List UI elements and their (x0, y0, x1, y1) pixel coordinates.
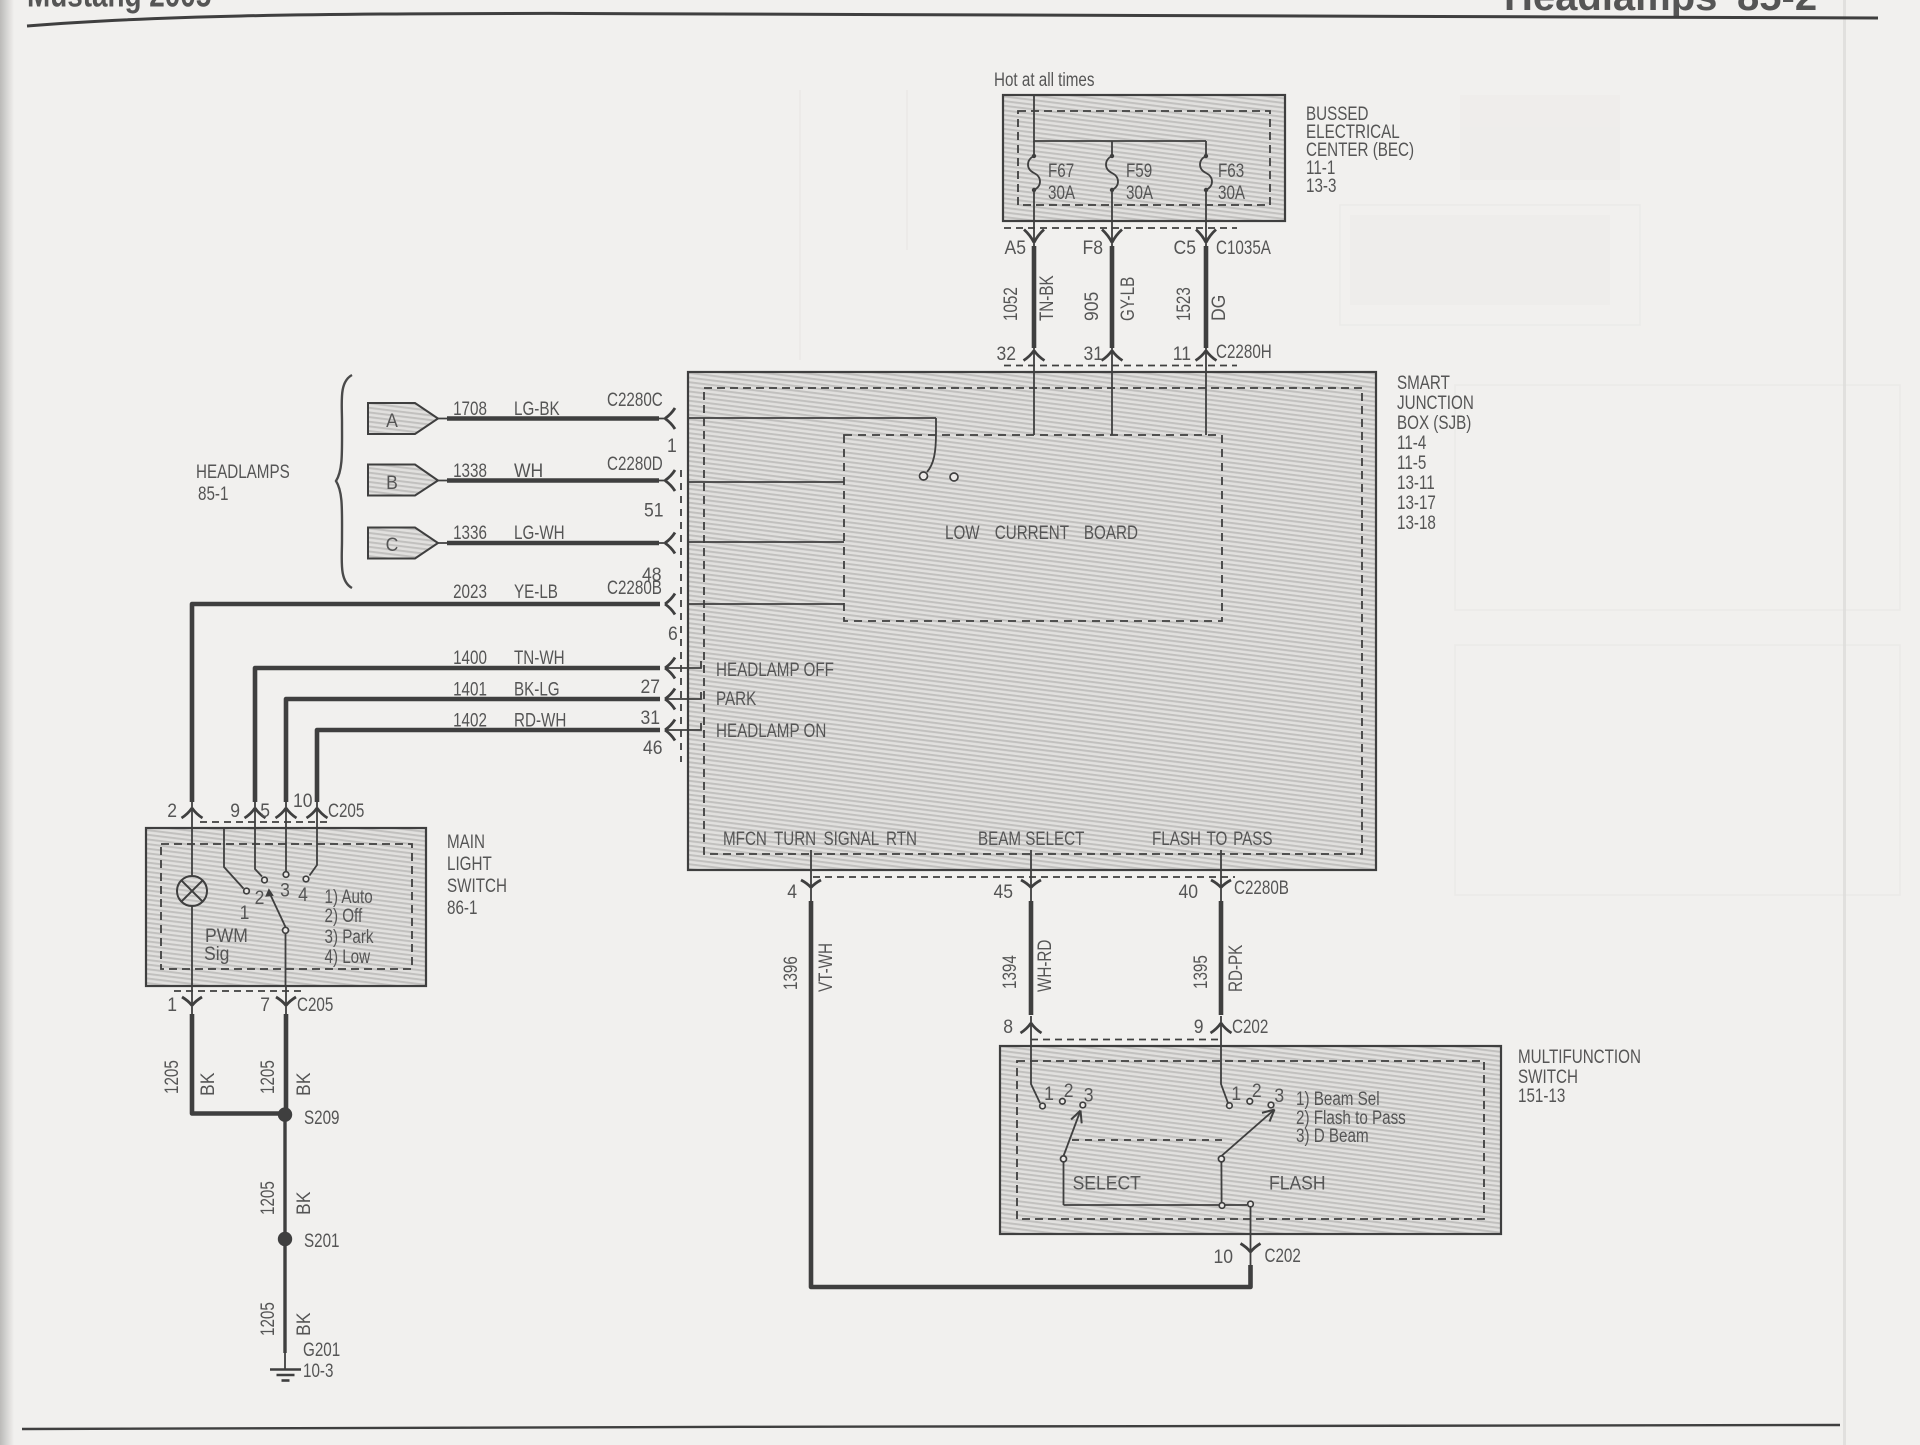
svg-text:31: 31 (640, 706, 660, 728)
svg-text:10: 10 (293, 789, 313, 811)
svg-text:46: 46 (643, 736, 663, 758)
svg-text:C2280H: C2280H (1216, 340, 1272, 362)
svg-text:1394: 1394 (998, 955, 1020, 989)
svg-text:9: 9 (1194, 1015, 1204, 1037)
svg-text:BK-LG: BK-LG (514, 678, 560, 700)
svg-text:31: 31 (1083, 342, 1103, 364)
svg-text:1338: 1338 (453, 459, 487, 481)
svg-text:LOW CURRENT BOARD: LOW CURRENT BOARD (945, 521, 1138, 543)
svg-text:C5: C5 (1174, 236, 1196, 258)
svg-text:2: 2 (1252, 1079, 1262, 1101)
svg-text:JUNCTION: JUNCTION (1397, 391, 1474, 413)
svg-text:B: B (386, 471, 398, 493)
svg-text:F67: F67 (1048, 159, 1074, 181)
svg-text:F63: F63 (1218, 159, 1244, 181)
svg-text:SELECT: SELECT (1073, 1172, 1141, 1194)
svg-text:4: 4 (298, 883, 308, 905)
svg-text:32: 32 (996, 342, 1016, 364)
svg-text:MAIN: MAIN (447, 830, 485, 852)
svg-text:BOX (SJB): BOX (SJB) (1397, 411, 1471, 433)
svg-text:3) D Beam: 3) D Beam (1296, 1124, 1369, 1146)
svg-text:PARK: PARK (716, 687, 757, 709)
svg-text:1395: 1395 (1189, 955, 1211, 989)
svg-text:FLASH TO PASS: FLASH TO PASS (1152, 827, 1273, 849)
svg-text:C2280B: C2280B (607, 576, 662, 598)
svg-text:RD-PK: RD-PK (1224, 944, 1246, 992)
svg-text:1402: 1402 (453, 709, 487, 731)
svg-text:WH: WH (514, 459, 543, 481)
svg-text:VT-WH: VT-WH (814, 943, 836, 992)
svg-text:C205: C205 (328, 799, 364, 821)
svg-text:1205: 1205 (256, 1302, 278, 1336)
svg-text:HEADLAMP OFF: HEADLAMP OFF (716, 658, 834, 680)
svg-text:2: 2 (255, 886, 265, 908)
svg-text:Sig: Sig (204, 942, 229, 964)
svg-text:Mustang 2005: Mustang 2005 (27, 0, 211, 14)
svg-text:2: 2 (1064, 1079, 1074, 1101)
svg-text:1396: 1396 (779, 956, 801, 990)
svg-text:C1035A: C1035A (1216, 236, 1271, 258)
svg-text:WH-RD: WH-RD (1033, 940, 1055, 992)
svg-text:SWITCH: SWITCH (447, 874, 507, 896)
svg-text:4: 4 (787, 880, 797, 902)
svg-text:1523: 1523 (1172, 287, 1194, 321)
svg-text:1052: 1052 (999, 287, 1021, 321)
svg-text:3: 3 (1084, 1084, 1094, 1106)
svg-text:C2280D: C2280D (607, 452, 663, 474)
svg-text:1401: 1401 (453, 678, 487, 700)
svg-text:BK: BK (196, 1072, 218, 1096)
svg-text:1: 1 (667, 434, 677, 456)
svg-text:1: 1 (240, 901, 250, 923)
svg-text:11-5: 11-5 (1397, 451, 1426, 473)
svg-text:HEADLAMP ON: HEADLAMP ON (716, 719, 826, 741)
svg-text:10-3: 10-3 (303, 1359, 333, 1381)
svg-text:FLASH: FLASH (1269, 1172, 1326, 1194)
svg-text:BEAM SELECT: BEAM SELECT (978, 827, 1085, 849)
svg-text:Hot at all times: Hot at all times (994, 68, 1095, 90)
svg-text:51: 51 (644, 499, 664, 521)
svg-text:MULTIFUNCTION: MULTIFUNCTION (1518, 1045, 1641, 1067)
svg-text:3: 3 (1274, 1084, 1284, 1106)
svg-text:MFCN TURN SIGNAL RTN: MFCN TURN SIGNAL RTN (723, 827, 917, 849)
svg-text:LIGHT: LIGHT (447, 852, 492, 874)
svg-text:F8: F8 (1083, 236, 1103, 258)
svg-text:1: 1 (1231, 1082, 1241, 1104)
svg-text:905: 905 (1080, 292, 1102, 321)
svg-text:RD-WH: RD-WH (514, 709, 566, 731)
svg-text:2) Off: 2) Off (325, 904, 363, 926)
svg-text:F59: F59 (1126, 159, 1152, 181)
svg-text:151-13: 151-13 (1518, 1084, 1565, 1106)
svg-text:1336: 1336 (453, 521, 487, 543)
svg-text:C202: C202 (1232, 1015, 1268, 1037)
svg-text:9: 9 (230, 799, 240, 821)
svg-text:1: 1 (167, 993, 177, 1015)
svg-text:5: 5 (260, 799, 270, 821)
svg-text:C2280B: C2280B (1234, 876, 1289, 898)
svg-text:45: 45 (993, 880, 1013, 902)
svg-text:1205: 1205 (256, 1060, 278, 1094)
svg-text:11-4: 11-4 (1397, 431, 1427, 453)
svg-text:BK: BK (292, 1072, 314, 1096)
svg-text:C202: C202 (1265, 1244, 1301, 1266)
svg-text:13-17: 13-17 (1397, 491, 1436, 513)
svg-text:A5: A5 (1005, 236, 1026, 258)
svg-text:HEADLAMPS: HEADLAMPS (196, 460, 290, 482)
svg-text:TN-WH: TN-WH (514, 646, 565, 668)
svg-text:S209: S209 (304, 1106, 339, 1128)
svg-text:8: 8 (1003, 1015, 1013, 1037)
svg-text:7: 7 (260, 993, 270, 1015)
svg-text:G201: G201 (303, 1338, 340, 1360)
svg-text:2: 2 (167, 799, 177, 821)
svg-text:S201: S201 (304, 1229, 339, 1251)
svg-text:3: 3 (280, 879, 290, 901)
svg-text:40: 40 (1178, 880, 1198, 902)
svg-text:TN-BK: TN-BK (1035, 275, 1057, 321)
svg-text:30A: 30A (1126, 181, 1153, 203)
svg-text:C2280C: C2280C (607, 388, 663, 410)
svg-text:4) Low: 4) Low (325, 945, 371, 967)
svg-text:6: 6 (668, 622, 678, 644)
svg-text:BK: BK (292, 1191, 314, 1215)
svg-text:GY-LB: GY-LB (1116, 277, 1138, 321)
svg-text:C: C (386, 533, 399, 555)
svg-text:1205: 1205 (160, 1060, 182, 1094)
svg-text:SMART: SMART (1397, 371, 1450, 393)
svg-text:30A: 30A (1048, 181, 1075, 203)
svg-text:27: 27 (640, 675, 660, 697)
svg-text:A: A (386, 409, 398, 431)
svg-text:LG-BK: LG-BK (514, 397, 560, 419)
svg-text:DG: DG (1207, 295, 1229, 321)
svg-text:13-11: 13-11 (1397, 471, 1435, 493)
svg-text:BK: BK (292, 1312, 314, 1336)
svg-text:3) Park: 3) Park (325, 925, 374, 947)
svg-text:11: 11 (1173, 342, 1191, 364)
svg-text:86-1: 86-1 (447, 896, 477, 918)
svg-text:13-18: 13-18 (1397, 511, 1436, 533)
svg-text:85-1: 85-1 (198, 482, 228, 504)
svg-text:YE-LB: YE-LB (514, 580, 558, 602)
svg-text:C205: C205 (297, 993, 333, 1015)
svg-text:1: 1 (1044, 1082, 1054, 1104)
svg-text:1708: 1708 (453, 397, 487, 419)
svg-text:LG-WH: LG-WH (514, 521, 565, 543)
svg-text:10: 10 (1213, 1245, 1233, 1267)
svg-text:2023: 2023 (453, 580, 487, 602)
svg-text:30A: 30A (1218, 181, 1245, 203)
svg-text:1400: 1400 (453, 646, 487, 668)
svg-text:13-3: 13-3 (1306, 174, 1336, 196)
svg-text:1205: 1205 (256, 1181, 278, 1215)
